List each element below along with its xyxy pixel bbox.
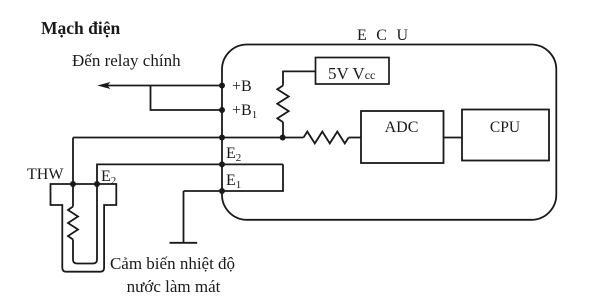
5V Vcc regulator box: [316, 58, 390, 85]
wire E2 sensor return line: [97, 164, 283, 184]
svg-text:Cảm biến nhiệt độ: Cảm biến nhiệt độ: [110, 254, 235, 273]
thermistor element (zigzag) inside sensor: [68, 184, 97, 264]
node sensor left terminal: [70, 181, 76, 187]
wire pull-up resistor to THW signal node: [282, 122, 284, 137]
svg-text:Mạch điện: Mạch điện: [41, 18, 121, 38]
wire +B1 branch: [151, 86, 223, 111]
svg-text:THW: THW: [27, 166, 64, 183]
wire ADC to CPU: [444, 137, 463, 139]
node pull-up junction: [280, 135, 286, 141]
ADC block: [361, 111, 444, 163]
wire sensor left terminal to THW line: [72, 138, 74, 185]
wire series resistor to ADC: [349, 137, 361, 139]
wire internal E2 to E1 link: [184, 164, 284, 191]
ground: [170, 242, 198, 244]
sensor housing THW: [51, 184, 117, 272]
wire 5V box to pull-up resistor: [283, 71, 316, 85]
ECU enclosure U1: [222, 45, 556, 220]
node +B1: [219, 107, 225, 113]
node THW pin at ECU edge: [219, 135, 225, 141]
pull-up resistor (vertical): [277, 86, 288, 123]
svg-text:ADC: ADC: [385, 119, 419, 136]
wire THW signal line: [73, 137, 304, 139]
node +B: [219, 83, 225, 89]
CPU block: [462, 110, 549, 161]
svg-text:Đến relay chính: Đến relay chính: [72, 51, 181, 70]
svg-text:+B: +B: [232, 78, 252, 95]
wire E1 to ground: [183, 191, 185, 243]
node sensor right terminal: [94, 181, 100, 187]
svg-text:ECU: ECU: [357, 27, 418, 44]
svg-text:CPU: CPU: [490, 119, 520, 136]
wire +B to relay with arrow: [97, 82, 222, 89]
svg-text:nước làm mát: nước làm mát: [127, 277, 221, 296]
series resistor (horizontal) to ADC: [304, 132, 349, 144]
node E2 pin at ECU edge: [219, 161, 225, 167]
node E1 pin at ECU edge: [219, 188, 225, 194]
